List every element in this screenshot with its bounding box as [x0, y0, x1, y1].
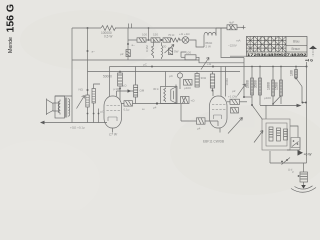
pot wiper arrow — [77, 96, 85, 109]
light indicator triangle — [309, 46, 317, 57]
svg-text:NΩ: NΩ — [79, 88, 84, 92]
svg-text:100: 100 — [186, 51, 191, 55]
capacitor C1 — [137, 33, 147, 43]
svg-text:~220V: ~220V — [228, 44, 237, 48]
right edge vertical — [306, 62, 308, 163]
resistor R5 50000 — [103, 72, 122, 101]
wire bus B y66.5 — [110, 66, 308, 68]
wire top horizontal bus — [72, 27, 227, 29]
svg-text:1500: 1500 — [275, 82, 279, 90]
svg-text:5W: 5W — [174, 50, 179, 54]
svg-text:100Ω: 100Ω — [225, 77, 229, 85]
arrow to mains — [298, 150, 304, 156]
wire to table — [230, 55, 247, 57]
switch diagonal 1 — [272, 96, 281, 105]
switch diagonal 2 — [295, 78, 302, 87]
svg-text:μ100: μ100 — [184, 86, 191, 90]
diagonal into selector — [252, 105, 263, 120]
resistor R2 — [163, 33, 180, 49]
selector loop inner — [266, 123, 287, 146]
svg-text:70 Ω: 70 Ω — [168, 33, 175, 37]
tube V2 EBF11 — [210, 67, 228, 129]
voltage table frame — [247, 37, 308, 57]
wire link x148.5 — [148, 27, 150, 41]
loudspeaker cone — [47, 99, 59, 116]
ground arrow — [301, 185, 306, 189]
wire grid line y91 — [117, 90, 134, 92]
tie line y97 — [244, 96, 252, 98]
pot arrow power — [238, 84, 246, 96]
resistor R8 vertical — [195, 72, 207, 88]
ground arcs — [291, 186, 316, 192]
node y103 x157 — [153, 102, 158, 109]
tube V1 cathode stub — [112, 128, 114, 133]
capacitor C8 — [181, 97, 196, 104]
transformer secondary coil — [68, 98, 71, 117]
resistor R6 vertical — [134, 67, 145, 104]
svg-text:μ100: μ100 — [114, 87, 121, 91]
pot 2 body — [92, 84, 100, 123]
transformer winding resistor — [58, 100, 60, 115]
wire jog top right — [221, 28, 244, 58]
node bus B x152 — [143, 63, 153, 68]
svg-text:+4 G: +4 G — [305, 59, 313, 63]
node on x88 — [87, 50, 96, 54]
winding box d — [280, 80, 283, 96]
node below R5 — [119, 84, 127, 90]
capacitor C10 — [184, 80, 193, 91]
svg-text:156 G: 156 G — [5, 4, 17, 33]
top cap terminal circle — [169, 72, 183, 90]
tube V2 cathode stub — [219, 128, 221, 133]
node bottom x87 — [87, 113, 89, 115]
svg-text:+1 ΩW: +1 ΩW — [228, 95, 237, 99]
model label Mende 156 G — [5, 4, 17, 53]
node on x128 — [127, 43, 135, 47]
node top x88 — [87, 27, 89, 29]
wire vertical x88 — [87, 28, 89, 95]
svg-text:μ4: μ4 — [153, 106, 157, 110]
selector pot arrow — [254, 131, 263, 143]
node busB power taps — [251, 66, 297, 68]
svg-text:100: 100 — [290, 70, 294, 76]
volume pot body — [86, 95, 89, 123]
selector bottom line — [270, 151, 307, 163]
electrolytic capacitor C4 — [227, 21, 237, 30]
wire x302 down — [302, 87, 307, 103]
winding box b — [259, 78, 262, 95]
svg-text:Mende: Mende — [8, 37, 14, 53]
trapezoid comp below C11 — [231, 108, 239, 114]
wire bottom left y122.5 — [44, 122, 107, 124]
svg-text:+Ω +1Ω: +Ω +1Ω — [179, 32, 190, 36]
svg-text:4μF: 4μF — [229, 21, 234, 25]
dial lamp — [174, 32, 190, 54]
lightning arrow variable — [201, 58, 209, 70]
svg-text:20: 20 — [163, 45, 167, 49]
wire detector row y40 — [128, 40, 204, 47]
resistor R9 vertical with label — [225, 67, 229, 97]
svg-text:0,1μ: 0,1μ — [124, 108, 130, 112]
wire stub x181 up — [181, 52, 186, 57]
svg-text:1000: 1000 — [267, 82, 271, 90]
wire to plus terminal — [237, 26, 244, 28]
node bus B x213 — [207, 62, 214, 68]
svg-text:172536485960748392: 172536485960748392 — [247, 52, 308, 57]
svg-text:30Ω: 30Ω — [201, 76, 207, 80]
node x244 bottom — [243, 96, 245, 98]
selector loop outer — [262, 119, 290, 150]
node det row — [161, 39, 163, 41]
tie line y105.5 with arrow to right edge — [260, 104, 302, 108]
transformer core lines — [65, 98, 67, 118]
choke coil arcs — [204, 32, 216, 48]
svg-text:Blau: Blau — [293, 39, 300, 43]
wire vertical x128 — [127, 28, 129, 60]
tube V1 output — [104, 67, 122, 129]
capacitor C12 — [292, 170, 308, 183]
node right edge — [306, 66, 308, 68]
node junction y102.5 — [302, 102, 308, 104]
svg-text:30 k: 30 k — [153, 87, 159, 91]
wire cap to ground — [303, 182, 305, 186]
wire anode line y103.5 — [122, 104, 182, 122]
selector resistor c — [284, 129, 288, 140]
capacitor C6 vertical — [169, 48, 173, 55]
selector right link — [287, 126, 300, 150]
selector resistor b — [277, 128, 281, 141]
node x252 bottom — [251, 104, 253, 106]
switch on bottom line — [281, 158, 290, 165]
wire speaker top — [55, 95, 72, 97]
capacitor C3 — [163, 38, 171, 42]
wire tube2 bottom line — [181, 121, 218, 126]
winding box e — [295, 70, 298, 79]
resistor R4 100 on y57 line — [181, 51, 199, 61]
resistor R3 vertical — [145, 40, 154, 58]
svg-text:μ2: μ2 — [232, 89, 236, 93]
wire down to ground — [303, 163, 305, 172]
wire bus C y71.5 — [88, 71, 241, 73]
node bottom x98.5 — [98, 109, 106, 123]
svg-text:3500: 3500 — [254, 80, 258, 88]
tuning arrow diagonal — [228, 118, 243, 134]
node bottom x93.6 — [93, 113, 95, 115]
svg-text:2 W: 2 W — [206, 45, 212, 49]
output transformer frame — [55, 96, 65, 118]
plug ticks above line — [129, 24, 132, 29]
winding box c — [272, 80, 275, 96]
plus terminal — [242, 25, 246, 29]
svg-text:Braun: Braun — [292, 47, 301, 51]
svg-text:ΩΜ: ΩΜ — [140, 89, 145, 93]
wire bus A y60 — [72, 60, 244, 63]
svg-text:+ΩΩ +0,1μ: +ΩΩ +0,1μ — [70, 126, 85, 130]
capacitor C5 on x128 — [120, 50, 130, 57]
svg-text:μ100: μ100 — [264, 96, 271, 100]
capacitor C2 — [151, 33, 160, 43]
choke coil legs — [204, 28, 227, 47]
power bus verticals — [244, 58, 296, 106]
capacitor C9 — [197, 118, 206, 131]
selector resistor a — [269, 127, 273, 141]
capacitor C7 — [124, 101, 133, 112]
wire vertical left x72 — [71, 28, 73, 123]
winding box a — [251, 78, 254, 95]
node x87 y90 — [79, 88, 89, 92]
capacitor C11 right of tube2 — [227, 95, 247, 105]
selector wire down — [265, 105, 267, 119]
resistor R1 100000 0,5W — [101, 26, 116, 31]
IF transformer box — [153, 72, 177, 104]
svg-text:mA: mA — [236, 39, 241, 43]
resistor R7 above tube2 — [210, 72, 214, 92]
diode dot y91 — [114, 87, 132, 93]
variable arrow over R2 — [165, 45, 175, 54]
svg-text:a↓: a↓ — [142, 107, 146, 111]
coil L2 vertical — [162, 42, 163, 59]
selector contact box — [291, 138, 300, 148]
svg-text:2000: 2000 — [246, 80, 250, 88]
table divider — [247, 37, 308, 57]
svg-text:C7 W: C7 W — [109, 133, 118, 137]
svg-text:50000: 50000 — [103, 75, 112, 79]
node bus C x120 — [119, 71, 121, 73]
arrowhead left end — [40, 121, 45, 125]
table hatch left zone — [247, 37, 287, 53]
